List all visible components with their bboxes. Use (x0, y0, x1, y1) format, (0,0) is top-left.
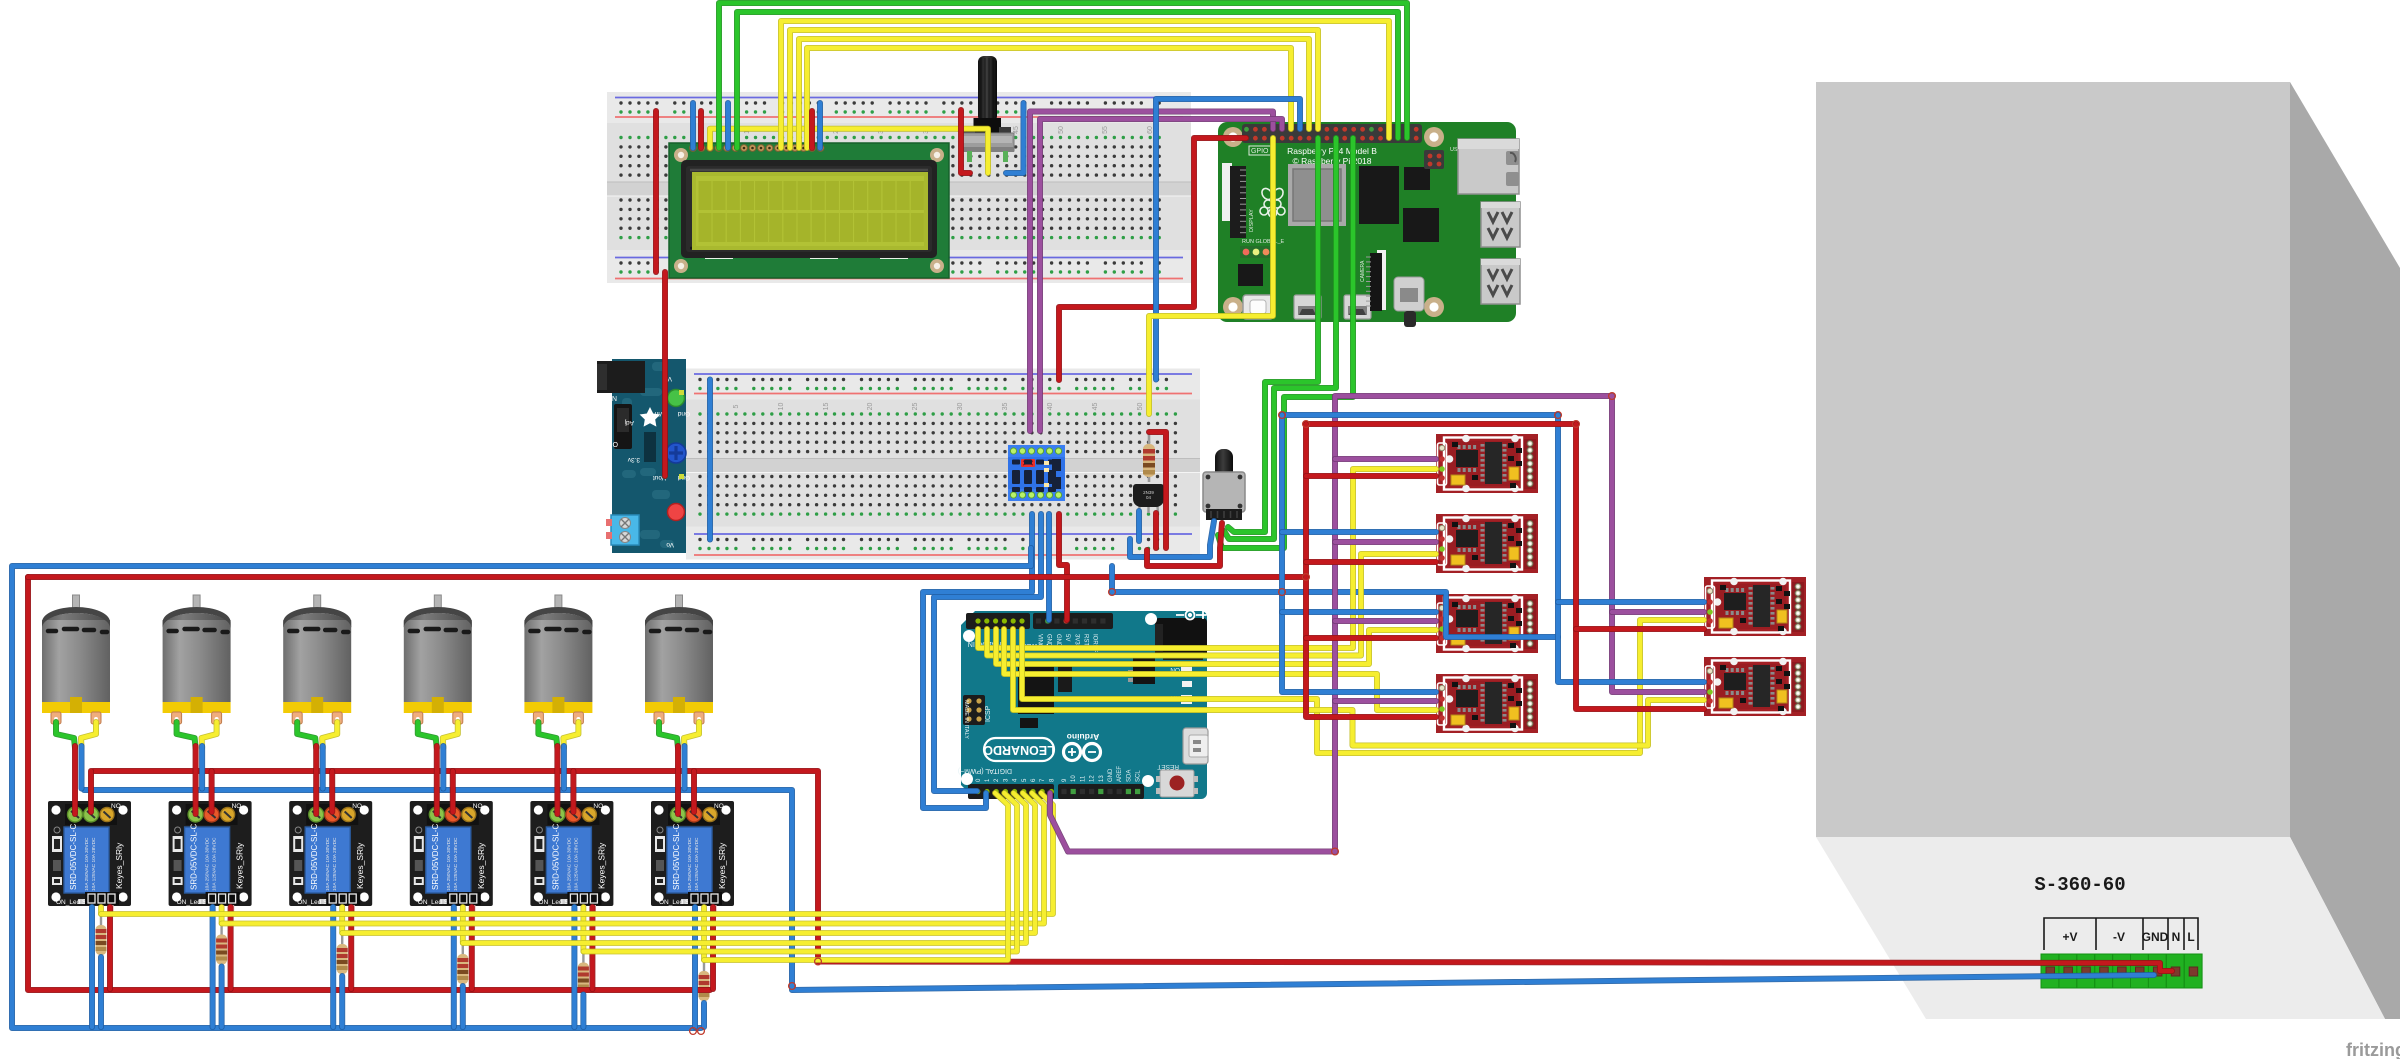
relay K4 (410, 801, 493, 914)
wire yellow (704.0,960) to (995,793) (704, 793, 1008, 960)
svg-text:Vo: Vo (666, 541, 674, 548)
green power LED (668, 390, 685, 407)
svg-text:3V3: 3V3 (1073, 634, 1079, 645)
relay K1 (48, 801, 131, 914)
svg-text:50: 50 (1058, 126, 1065, 134)
wire blue (92.0,907) to (92.0,1027) (89, 907, 95, 1027)
wire yellow (462.79999999999995,943) to (1013.4,793) (463, 793, 1026, 943)
wire blue (1214,521) to (1130,539) (1130, 521, 1214, 557)
relay K6 (651, 801, 734, 914)
svg-text:55: 55 (1102, 126, 1109, 134)
wire red (1576,629) to (1704,629) (1576, 626, 1704, 632)
svg-text:10A 250VAC 10A 30VDC: 10A 250VAC 10A 30VDC (566, 837, 572, 891)
wire blue (1282,532) to (1436,532) (1282, 529, 1436, 535)
wire yellow (221.6,923.5) to (1031.8,793) (222, 793, 1044, 924)
wire blue (1282,415) to (1558,415) (1282, 412, 1558, 418)
wire green (1336,138) to (1224,531) (1224, 138, 1336, 539)
svg-text:ON_Led S: ON_Led S (56, 899, 87, 906)
resistor R2 (216, 924, 227, 970)
svg-text:04: 04 (1146, 495, 1152, 500)
motor M5 (524, 595, 592, 724)
svg-text:ON_Led S: ON_Led S (297, 899, 328, 906)
wire blue (333.2,907) to (333.2,1027) (330, 907, 336, 1027)
wire red (713.0,907) to (713.0,989) (710, 907, 716, 989)
svg-text:Raspberry Pi 4 Model B: Raspberry Pi 4 Model B (1287, 146, 1377, 156)
svg-text:10A 250VAC 10A 30VDC: 10A 250VAC 10A 30VDC (446, 837, 452, 891)
motor M2 (163, 595, 231, 724)
svg-text:10A 125VAC 10A 28VDC: 10A 125VAC 10A 28VDC (332, 837, 338, 891)
motor M4 (404, 595, 472, 724)
wire purple (1335,621) to (1436,621) (1335, 618, 1436, 624)
svg-text:ON_Led S: ON_Led S (418, 899, 449, 906)
wire purple (1335,701) to (1436,701) (1335, 698, 1436, 704)
svg-text:Keyes_SRly: Keyes_SRly (235, 842, 245, 889)
svg-text:RST: RST (1083, 634, 1089, 646)
svg-text:SRD-05VDC-SL-C: SRD-05VDC-SL-C (431, 824, 440, 890)
wire red (961,110) to (970,173) (961, 110, 970, 173)
svg-text:45: 45 (1092, 403, 1099, 411)
svg-text:-V: -V (2113, 930, 2125, 944)
power supply S-360-60 enclosure front face (1816, 82, 2290, 837)
wire red (211.6,771) to (211.6,812) (209, 771, 215, 812)
wire blue (84,790) to (2154,975) (84, 790, 2154, 990)
wire red (678.0,746) to (678.0,814) (675, 746, 681, 814)
svg-text:Keyes_SRly: Keyes_SRly (476, 842, 486, 889)
driver module U2 (1436, 514, 1538, 573)
wire green (297.2,722) to (316.2,748) (297, 722, 316, 748)
LCD1602 display (669, 143, 949, 278)
wire blue (1558,415) to (1704,682) (1558, 415, 1704, 682)
breadboard power supply module (Adafruit) (597, 359, 690, 553)
wire blue (1139,511) to (1139,541) (1136, 511, 1142, 541)
wire blue (1049,514) to (1049,620) (1046, 514, 1052, 620)
svg-text:10A 125VAC 10A 28VDC: 10A 125VAC 10A 28VDC (212, 837, 218, 891)
wire yellow (799,148) to (1309,129) (799, 39, 1309, 148)
wire green (176.6,722) to (195.6,748) (177, 722, 196, 748)
svg-text:CAMERA: CAMERA (1360, 260, 1366, 282)
svg-text:60: 60 (1147, 126, 1154, 134)
wire yellow (583.4,907) to (583.4,951.5) (581, 907, 587, 952)
wire yellow (807,148) to (1291,129) (807, 48, 1291, 148)
wire blue (574.4,907) to (574.4,1027) (571, 907, 577, 1027)
wire yellow (996,629) to (1436,630) (996, 629, 1436, 664)
svg-text:Keyes_SRly: Keyes_SRly (114, 842, 124, 889)
wire yellow (1004,629) to (1436,710) (1004, 629, 1436, 710)
svg-text:Arduino: Arduino (1067, 732, 1100, 742)
wire red (1306,424) to (1436,717) (1306, 424, 1436, 717)
wire red (694.0,771) to (694.0,812) (691, 771, 697, 812)
breadboard BB1 (607, 92, 1191, 283)
svg-text:SCL: SCL (1136, 770, 1142, 782)
wire blue (684.5,746) to (684.5,788.5) (682, 746, 688, 789)
resistor R4 (457, 943, 468, 989)
svg-text:10A 250VAC 10A 30VDC: 10A 250VAC 10A 30VDC (84, 837, 90, 891)
svg-text:SRD-05VDC-SL-C: SRD-05VDC-SL-C (551, 824, 560, 890)
wire blue (1032,514) to (986,793) (923, 514, 1032, 808)
motor M3 (283, 595, 351, 724)
power switch (614, 404, 632, 449)
svg-text:+V: +V (2062, 930, 2077, 944)
junction nodes (690, 393, 1616, 1035)
star logo (640, 407, 661, 427)
svg-text:10A 125VAC 10A 28VDC: 10A 125VAC 10A 28VDC (453, 837, 459, 891)
wire red (316.2,746) to (316.2,814) (313, 746, 319, 814)
svg-text:fritzing: fritzing (2346, 1040, 2400, 1059)
GPIO header (1242, 124, 1422, 143)
wire purple (1612,612) to (1704,612) (1612, 609, 1704, 615)
svg-text:13: 13 (1099, 775, 1105, 782)
power supply S-360-60 enclosure right side face (2290, 82, 2400, 1019)
wire yellow (342.2,907) to (342.2,933) (339, 907, 345, 933)
wire blue (1023.5,103) to (1006,173) (1006, 103, 1024, 173)
svg-text:DISPLAY: DISPLAY (1249, 209, 1255, 232)
wire blue (1112,566) to (1558,637) (1112, 566, 1558, 637)
wire yellow (342.2,933) to (1022.6,793) (342, 793, 1035, 933)
wire green (1353,138) to (1218,535) (1218, 138, 1353, 548)
svg-text:RUN GLOBAL_E: RUN GLOBAL_E (1242, 239, 1285, 245)
svg-text:ICSP: ICSP (985, 705, 992, 722)
wire red (1156,513) to (1156,548) (1153, 513, 1159, 548)
svg-text:50: 50 (1137, 403, 1144, 411)
relay K5 (530, 801, 613, 914)
potentiometer P2 (1203, 449, 1245, 520)
wire red (701,148) to (701,111) (698, 111, 704, 148)
wire yellow (578.4,722) to (563.9,748) (563, 722, 578, 748)
svg-text:SDA: SDA (1126, 770, 1132, 782)
wire yellow (978,629) to (1436,469) (978, 469, 1436, 648)
wire yellow (457.79999999999995,722) to (443.29999999999995,748) (443, 722, 458, 748)
wire red (1246,138) to (1059,380) (1059, 138, 1246, 380)
svg-text:NO: NO (473, 803, 483, 810)
red LED (668, 504, 685, 521)
wire yellow (1013,629) to (1704,700) (1013, 629, 1704, 746)
svg-text:10A 250VAC 10A 30VDC: 10A 250VAC 10A 30VDC (687, 837, 693, 891)
wire red (557.4,746) to (557.4,814) (554, 746, 560, 814)
svg-text:10A 250VAC 10A 30VDC: 10A 250VAC 10A 30VDC (205, 837, 211, 891)
wire red (1306,638) to (1436,638) (1306, 635, 1436, 641)
wire red (665,272) to (665,476) (662, 272, 668, 476)
svg-text:40: 40 (1047, 403, 1054, 411)
motor M6 (645, 595, 713, 724)
Raspberry Pi 4 Model B (1218, 122, 1520, 327)
wire blue (81.5,746) to (81.5,788.5) (79, 746, 85, 789)
wire yellow (790,148) to (1318,129) (790, 30, 1318, 148)
svg-text:RESET: RESET (1157, 763, 1179, 770)
wire red (28,577) to (710,990) (28, 577, 710, 990)
svg-text:5: 5 (733, 404, 740, 408)
svg-text:OFF: OFF (604, 440, 618, 447)
terminal label box +V -V GND N L (2044, 918, 2198, 950)
svg-text:ON_Led S: ON_Led S (177, 899, 208, 906)
wire blue (583.4,994.5) to (583.4,1027) (580, 995, 586, 1028)
wire red (592.4,907) to (592.4,989) (589, 907, 595, 989)
wire yellow (96.0,722) to (81.5,748) (81, 722, 96, 748)
wire red (1149,432) to (1166,548) (1149, 432, 1166, 548)
svg-text:11: 11 (1080, 775, 1086, 782)
wire green (417.79999999999995,722) to (436.79999999999995,748) (418, 722, 437, 748)
svg-text:5V: 5V (1064, 634, 1070, 641)
wire blue (728,148) to (728,103) (725, 103, 731, 148)
wire purple (1050,793) to (1704,692) (1050, 396, 1704, 852)
wire yellow (221.6,907) to (221.6,923.5) (219, 907, 225, 924)
wire red (28,577) to (1306,577) (28, 574, 1306, 580)
resistor R6 (699, 960, 710, 1006)
wire red (1059,514) to (1067,620) (1059, 514, 1067, 620)
wire purple (1282,129) to (1040,431) (1040, 119, 1282, 431)
wire green (737,148) to (1398,138) (737, 12, 1398, 148)
svg-text:30: 30 (957, 403, 964, 411)
svg-text:N: N (2172, 930, 2181, 944)
wire red (471.79999999999995,907) to (471.79999999999995,989) (469, 907, 475, 989)
wire green (538.4,722) to (557.4,748) (538, 722, 557, 748)
wire yellow (101.0,907) to (101.0,914) (98, 907, 104, 914)
wire blue (1041,514) to (977,791) (934, 514, 1041, 791)
svg-text:10: 10 (778, 403, 785, 411)
wire red (1306,424) to (1576,424) (1306, 421, 1576, 427)
screw terminal (611, 515, 639, 545)
breadboard BB2 (686, 369, 1200, 560)
svg-text:NO: NO (714, 803, 724, 810)
wire blue (462.79999999999995,986) to (462.79999999999995,1027) (460, 986, 466, 1027)
svg-text:12: 12 (1090, 775, 1096, 782)
wire blue (1300,129) to (1156,379.5) (1156, 99, 1300, 380)
svg-text:NO: NO (593, 803, 603, 810)
wire red (91.0,771) to (91.0,812) (88, 771, 94, 812)
wire yellow (583.4,951.5) to (1004.2,793) (583, 793, 1017, 952)
wire green (659.0,722) to (678.0,748) (659, 722, 678, 748)
resistor R1 (96, 914, 107, 960)
wire red (1222,523) to (1147,550) (1147, 523, 1222, 566)
wire red (93,771) to (2172,971) (93, 771, 2172, 971)
wire red (195.6,746) to (195.6,814) (193, 746, 199, 814)
wire red (351.2,907) to (351.2,989) (348, 907, 354, 989)
wire red (332.2,771) to (332.2,812) (329, 771, 335, 812)
wire red (230.6,907) to (230.6,989) (228, 907, 234, 989)
svg-text:GPIO: GPIO (1251, 148, 1269, 155)
motor M1 (42, 595, 110, 724)
wire yellow (462.79999999999995,907) to (462.79999999999995,943) (460, 907, 466, 943)
PSU green terminal block (2041, 954, 2202, 988)
relay K3 (289, 801, 372, 914)
driver module U4 (1436, 674, 1538, 733)
svg-text:Gnd: Gnd (677, 410, 690, 417)
svg-text:10A 125VAC 10A 28VDC: 10A 125VAC 10A 28VDC (694, 837, 700, 891)
wire red (812,148) to (812,111) (809, 111, 815, 148)
wire blue (443.29999999999995,746) to (443.29999999999995,788.5) (440, 746, 446, 789)
wire red (452.79999999999995,771) to (452.79999999999995,812) (450, 771, 456, 812)
wire blue (322.7,746) to (322.7,788.5) (320, 746, 326, 789)
svg-text:3.3v: 3.3v (627, 456, 640, 463)
Arduino Leonardo (958, 611, 1208, 800)
wire purple (1335,542) to (1436,542) (1335, 539, 1436, 545)
svg-text:Adj: Adj (625, 419, 634, 426)
wire blue (221.6,966.5) to (221.6,1027) (219, 967, 225, 1028)
wire red (573.4,771) to (573.4,812) (570, 771, 576, 812)
wire blue (820,148) to (820,103) (817, 103, 823, 148)
wire red (1576,424) to (1704,709) (1576, 424, 1704, 709)
wire red (1306,562) to (1436,562) (1306, 559, 1436, 565)
wire purple (1335,459) to (1436,459) (1335, 456, 1436, 462)
driver module U6 (1704, 657, 1806, 716)
resistor R7 (base) (1143, 432, 1155, 482)
wire yellow (1273,138) to (1149,414) (1149, 138, 1273, 414)
wire blue (1282,612) to (1436,612) (1282, 609, 1436, 615)
svg-text:MADE IN ITALY: MADE IN ITALY (963, 700, 969, 739)
svg-text:NO: NO (606, 394, 617, 401)
wire blue (704.0,1003) to (704.0,1027) (701, 1003, 707, 1027)
wire blue (1031,548) to (701,1028) (12, 548, 1031, 1028)
svg-text:SRD-05VDC-SL-C: SRD-05VDC-SL-C (672, 824, 681, 890)
svg-text:DIGITAL (PWM~): DIGITAL (PWM~) (958, 767, 1012, 774)
wire blue (1282,415) to (1436,692) (1282, 415, 1436, 692)
4ch level shifter module (1008, 445, 1065, 501)
svg-text:15: 15 (823, 403, 830, 411)
wire yellow (710,148) to (988,173) (710, 129, 988, 173)
wire red (1306,476) to (1436,476) (1306, 473, 1436, 479)
svg-text:LEONARDO: LEONARDO (983, 743, 1055, 757)
svg-text:S-360-60: S-360-60 (2034, 874, 2125, 896)
svg-text:Keyes_SRly: Keyes_SRly (596, 842, 606, 889)
svg-text:25: 25 (912, 403, 919, 411)
barrel jack (597, 361, 645, 393)
svg-text:10A 250VAC 10A 30VDC: 10A 250VAC 10A 30VDC (325, 837, 331, 891)
driver module U5 (1704, 577, 1806, 636)
svg-text:ON_Led S: ON_Led S (659, 899, 690, 906)
svg-text:Keyes_SRly: Keyes_SRly (355, 842, 365, 889)
svg-text:GND: GND (1108, 768, 1114, 782)
wire yellow (781,148) to (1389,138) (781, 21, 1389, 148)
wire blue (710,379.5) to (710,539.5) (707, 380, 713, 540)
svg-text:NO: NO (352, 803, 362, 810)
wire blue (202.1,746) to (202.1,788.5) (199, 746, 205, 789)
wire blue (453.79999999999995,907) to (453.79999999999995,1027) (451, 907, 457, 1027)
wire blue (342.2,976) to (342.2,1027) (339, 976, 345, 1027)
wire blue (1558,602) to (1704,602) (1558, 599, 1704, 605)
wire yellow (1022,629) to (1704,620) (1022, 620, 1704, 753)
wire blue (693,148) to (693,103) (690, 103, 696, 148)
wire yellow (101.0,914) to (1041,793) (101, 793, 1053, 914)
wire blue (563.9,746) to (563.9,788.5) (561, 746, 567, 789)
driver module U3 (1436, 594, 1538, 653)
wire blue (695.0,907) to (695.0,1027) (692, 907, 698, 1027)
svg-text:AREF: AREF (1117, 766, 1123, 782)
svg-text:ON_Led S: ON_Led S (538, 899, 569, 906)
svg-text:L: L (2187, 930, 2194, 944)
driver module U1 (1436, 434, 1538, 493)
wire yellow (699.0,722) to (684.5,748) (684, 722, 699, 748)
svg-text:NO: NO (111, 803, 121, 810)
transistor Q7 (1133, 484, 1164, 513)
svg-text:10: 10 (1071, 775, 1077, 782)
wire yellow (704.0,907) to (704.0,960) (701, 907, 707, 960)
svg-text:NO: NO (232, 803, 242, 810)
wire green (719,148) to (1407,138) (719, 3, 1407, 148)
svg-text:GND: GND (2142, 930, 2169, 944)
wire blue (101.0,957) to (101.0,1027) (98, 957, 104, 1027)
wire purple (1273,129) to (1030,431) (1030, 112, 1273, 432)
resistor R3 (337, 933, 348, 979)
wire yellow (987,629) to (1436,554) (987, 554, 1436, 656)
wire red (110.0,907) to (110.0,989) (107, 907, 113, 989)
svg-text:SRD-05VDC-SL-C: SRD-05VDC-SL-C (69, 824, 78, 890)
wire blue (212.6,907) to (212.6,1027) (210, 907, 216, 1027)
svg-text:Keyes_SRly: Keyes_SRly (717, 842, 727, 889)
relay K2 (169, 801, 252, 914)
power supply S-360-60 enclosure bottom face (1816, 837, 2385, 1019)
svg-text:SRD-05VDC-SL-C: SRD-05VDC-SL-C (190, 824, 199, 890)
svg-text:10A 125VAC 10A 28VDC: 10A 125VAC 10A 28VDC (573, 837, 579, 891)
wire green (1318,138) to (1228,527) (1228, 138, 1318, 532)
svg-text:20: 20 (867, 403, 874, 411)
trimpot (666, 443, 686, 463)
wire green (56.0,722) to (75.0,748) (56, 722, 75, 748)
wire red (656,111) to (656,272) (653, 111, 659, 272)
wire yellow (216.6,722) to (202.1,748) (202, 722, 217, 748)
svg-text:35: 35 (1002, 403, 1009, 411)
potentiometer P1 (LCD contrast) (961, 56, 1014, 162)
wire red (75.0,746) to (75.0,814) (72, 746, 78, 814)
resistor R5 (578, 952, 589, 998)
svg-text:SRD-05VDC-SL-C: SRD-05VDC-SL-C (310, 824, 319, 890)
svg-text:10A 125VAC 10A 28VDC: 10A 125VAC 10A 28VDC (91, 837, 97, 891)
wire red (436.79999999999995,746) to (436.79999999999995,814) (434, 746, 440, 814)
wire yellow (337.2,722) to (322.7,748) (322, 722, 337, 748)
